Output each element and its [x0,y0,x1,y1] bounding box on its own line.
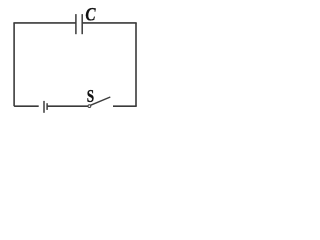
svg-text:S: S [87,87,95,106]
wire: left vertical side [13,23,15,106]
wire: right vertical side [135,23,137,106]
wire: bottom segment from left corner to battery [14,105,39,107]
battery plates (long left plate, short right plate) [44,101,47,113]
wire: top segment from capacitor to right corner [83,22,137,24]
switch S pivot circle [88,105,91,108]
wire: bottom segment from switch to right corner [113,105,137,107]
capacitor C plates [76,14,82,34]
svg-text:C: C [85,4,96,25]
wire: top segment from left corner to capacitor [13,22,75,24]
wire: bottom segment from battery to switch pivot [47,105,88,107]
switch S blade arm [91,97,111,105]
